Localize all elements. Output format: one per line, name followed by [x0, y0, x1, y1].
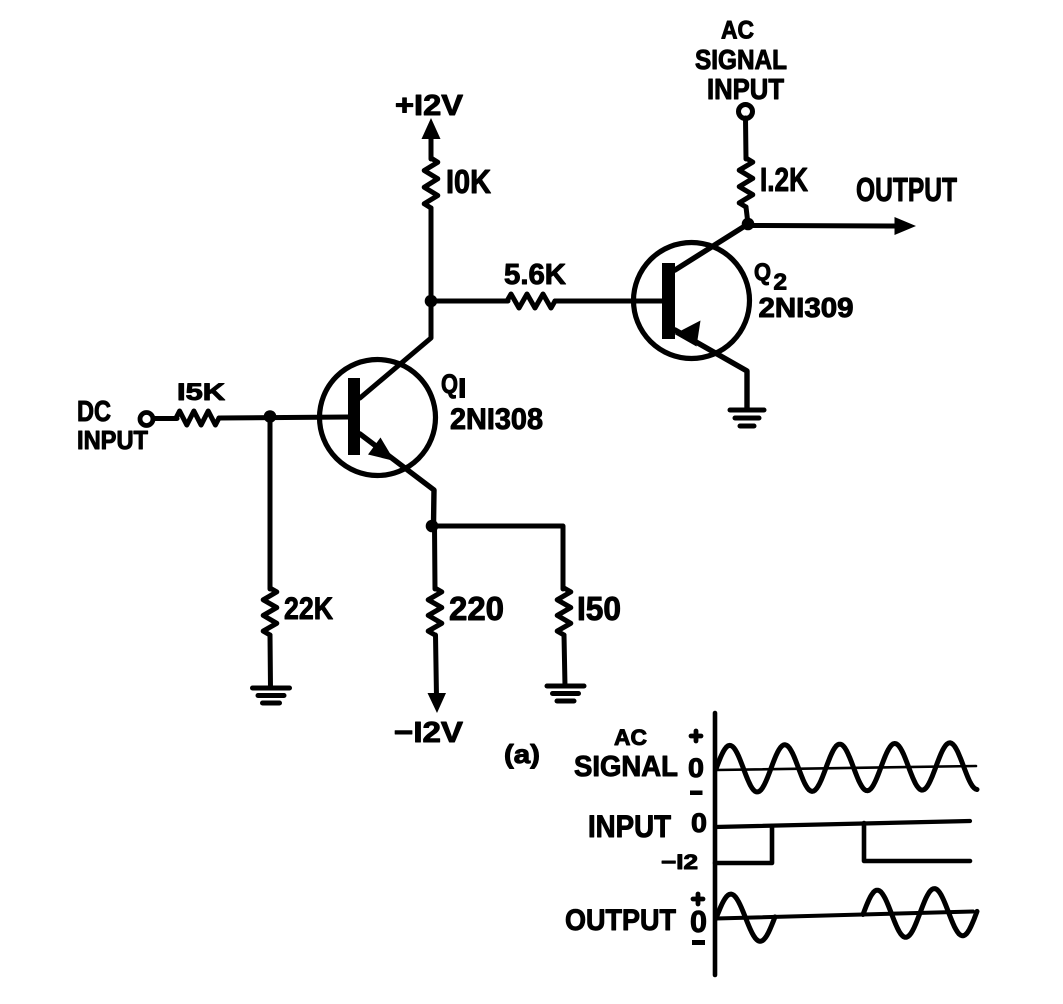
- caption (a): [504, 739, 540, 769]
- wire base node down to 22K: [268, 417, 273, 589]
- OUTPUT row minus mark: [692, 940, 705, 945]
- transistor Q2 emitter with inward arrow: [675, 321, 748, 409]
- transistor Q2 collector wire: [675, 224, 748, 270]
- svg-text:I50: I50: [577, 590, 621, 627]
- power -12V arrow: [428, 693, 447, 713]
- wire 5.6K to Q2 base: [555, 299, 662, 304]
- AC row minus mark: [690, 791, 703, 796]
- AC input terminal: [739, 105, 753, 119]
- label 1.2K: [760, 161, 808, 198]
- node output junction dot: [742, 218, 755, 231]
- OUTPUT sine burst 2: [863, 889, 977, 938]
- wire 22K to ground: [268, 635, 274, 688]
- svg-text:I5K: I5K: [177, 379, 226, 406]
- label 10K: [446, 163, 491, 200]
- label AC SIGNAL (waveform): [574, 725, 678, 783]
- INPUT row O label: [691, 808, 707, 838]
- svg-text:2NI308: 2NI308: [450, 403, 543, 436]
- wire output with arrow: [748, 217, 916, 235]
- resistor R 22K: [263, 588, 277, 635]
- wire 10K to node A: [429, 208, 434, 301]
- resistor R 10K: [424, 158, 438, 208]
- label 15K: [177, 379, 226, 406]
- label Q2: [754, 259, 787, 295]
- DC input terminal: [140, 413, 153, 426]
- AC sine waveform: [716, 743, 977, 792]
- svg-text:2NI309: 2NI309: [759, 292, 854, 323]
- wire emitter node down to 220: [432, 526, 438, 589]
- svg-text:2: 2: [774, 269, 788, 295]
- transistor Q2 base bar: [662, 263, 675, 339]
- power +12V label: [395, 90, 464, 122]
- svg-text:Q: Q: [754, 259, 771, 286]
- node base junction dot: [264, 410, 277, 423]
- svg-text:Q: Q: [441, 369, 458, 399]
- wire AC terminal to 1.2K: [743, 118, 749, 159]
- label OUTPUT: [856, 171, 957, 208]
- svg-text:SIGNAL: SIGNAL: [695, 44, 787, 75]
- resistor R 5.6K: [507, 294, 555, 308]
- transistor Q1 base bar: [348, 378, 360, 455]
- label 150: [577, 590, 621, 627]
- ground Q2 emitter: [730, 410, 764, 426]
- svg-text:0: 0: [690, 904, 707, 939]
- svg-text:0: 0: [691, 808, 707, 838]
- node A junction dot: [425, 295, 438, 308]
- label DC INPUT: [77, 396, 148, 455]
- svg-text:OUTPUT: OUTPUT: [856, 171, 957, 208]
- label OUTPUT (waveform): [565, 904, 676, 937]
- svg-text:INPUT: INPUT: [588, 808, 671, 844]
- svg-text:+I2V: +I2V: [395, 90, 464, 122]
- resistor R 15K: [176, 411, 219, 425]
- INPUT square wave low segment 2: [864, 823, 970, 861]
- ground 150: [547, 686, 584, 701]
- ground 22K: [253, 688, 290, 703]
- resistor R 220: [428, 588, 442, 635]
- svg-text:AC: AC: [721, 17, 754, 45]
- svg-text:220: 220: [449, 590, 504, 627]
- wire 220 to -12V arrow: [436, 635, 437, 697]
- label 22K: [284, 590, 333, 626]
- svg-text:AC: AC: [614, 725, 647, 750]
- resistor R 150: [557, 588, 571, 635]
- label AC SIGNAL INPUT: [695, 17, 787, 107]
- wire node A to 5.6K: [431, 299, 508, 304]
- svg-text:22K: 22K: [284, 590, 333, 626]
- label -12V: [394, 717, 464, 749]
- svg-text:(a): (a): [504, 739, 540, 769]
- label 220: [449, 590, 504, 627]
- svg-text:I.2K: I.2K: [760, 161, 808, 198]
- svg-text:−I2: −I2: [661, 851, 698, 874]
- label INPUT (waveform): [588, 808, 671, 844]
- svg-text:INPUT: INPUT: [707, 74, 784, 106]
- label 2N1309: [759, 292, 854, 323]
- OUTPUT sine burst 1: [716, 894, 775, 941]
- INPUT zero line: [715, 821, 970, 827]
- label 5.6K: [504, 259, 566, 291]
- label -12: [661, 851, 698, 874]
- svg-text:SIGNAL: SIGNAL: [574, 751, 678, 783]
- svg-text:DC: DC: [77, 396, 111, 428]
- transistor Q1 circle: [320, 360, 436, 476]
- wire 150 to ground: [564, 635, 565, 686]
- transistor Q2 circle: [634, 243, 750, 359]
- svg-text:0: 0: [688, 753, 704, 783]
- OUTPUT row plus mark: [693, 894, 703, 904]
- svg-text:OUTPUT: OUTPUT: [565, 904, 676, 937]
- wire emitter node to 150 branch: [431, 526, 563, 589]
- svg-text:5.6K: 5.6K: [504, 259, 566, 291]
- wire 15K to Q1 base: [219, 417, 349, 418]
- resistor R 1.2K: [739, 158, 753, 207]
- AC zero reference line: [716, 766, 976, 770]
- wire node A down to Q1 collector: [360, 300, 431, 398]
- wire terminal to 15K: [153, 416, 177, 421]
- transistor Q1 emitter with arrow: [360, 434, 434, 525]
- waveform axis vertical line: [713, 713, 718, 975]
- OUTPUT zero line: [716, 912, 973, 919]
- svg-text:I0K: I0K: [446, 163, 491, 200]
- label Q1: [441, 369, 465, 399]
- wire 1.2K to output node: [746, 207, 748, 224]
- OUTPUT row O label: [690, 904, 707, 939]
- label 2N1308: [450, 403, 543, 436]
- AC row plus mark: [691, 731, 701, 741]
- svg-text:−I2V: −I2V: [394, 717, 464, 749]
- power +12V arrow: [422, 118, 441, 159]
- AC row O label: [688, 753, 704, 783]
- INPUT square wave low segment 1: [715, 826, 772, 863]
- svg-text:INPUT: INPUT: [77, 425, 148, 455]
- node emitter junction dot: [426, 520, 439, 533]
